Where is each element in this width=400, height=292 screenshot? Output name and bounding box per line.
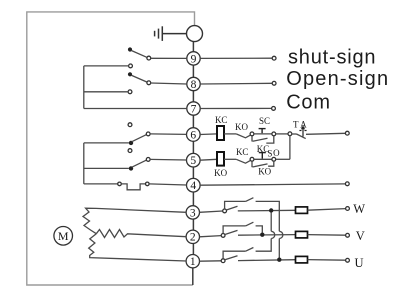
row4 end circle: [345, 182, 349, 186]
svg-text:KO: KO: [235, 122, 248, 132]
phase W lower blade: [226, 206, 237, 210]
SO fixed line: [254, 158, 272, 160]
phase W upper branch: [225, 201, 246, 209]
switch S6 blade: [132, 135, 147, 142]
wire TA to end: [306, 133, 345, 134]
wire upper W to vertical2: [256, 201, 280, 231]
switch S8 blade: [132, 75, 147, 82]
motor winding B: [96, 230, 186, 238]
svg-text:KO: KO: [258, 167, 271, 177]
switch S9 contact: [147, 56, 151, 60]
terminal 7: [187, 102, 200, 115]
phase U upper blade: [246, 248, 254, 252]
phase V upper blade: [246, 222, 254, 226]
svg-text:Com: Com: [286, 91, 331, 113]
svg-text:2: 2: [190, 232, 196, 244]
SO actuator T: [259, 152, 266, 154]
wire button to terminal 4: [149, 184, 186, 185]
wire terminal 7 to Com: [200, 107, 271, 109]
wire terminal 4 long right: [200, 184, 345, 185]
main terminal bus: [192, 42, 195, 285]
fuse FU: [296, 256, 308, 263]
shut-sign end circle: [272, 56, 276, 60]
contact KO blade: [236, 134, 250, 138]
vertical2 lower: [278, 239, 280, 259]
svg-text:8: 8: [191, 79, 197, 91]
terminal 8: [187, 77, 200, 90]
svg-text:KC: KC: [236, 147, 249, 157]
SC contact b: [272, 132, 276, 136]
wire node to TA: [292, 133, 297, 135]
coil KC: [217, 126, 224, 140]
fuse FW: [296, 207, 308, 214]
switch S6 contact: [146, 132, 150, 136]
wire terminal 5 to coil KO: [200, 158, 217, 161]
svg-text:U: U: [355, 256, 364, 270]
phase U moving contact circle: [221, 259, 225, 263]
wire S6 dot to bus2: [84, 142, 129, 144]
svg-text:9: 9: [191, 53, 197, 65]
svg-text:A: A: [300, 120, 307, 130]
phase W line to fuse: [238, 209, 296, 212]
phase U upper branch: [223, 251, 246, 259]
motor winding C: [89, 234, 187, 261]
wire bus2 to button: [84, 183, 118, 185]
SO contact a: [250, 157, 254, 161]
wire SC to node: [276, 133, 288, 135]
svg-text:3: 3: [190, 207, 196, 219]
wire S8 to terminal 8: [151, 83, 187, 84]
svg-text:6: 6: [190, 129, 196, 141]
wire terminal 1 to contactor: [200, 260, 222, 262]
SC actuator T: [259, 128, 266, 130]
wire NC9 to com bus: [84, 65, 129, 67]
row6 end circle: [345, 131, 349, 135]
phase W upper blade: [246, 198, 254, 202]
wire coil KO to contact KC: [224, 158, 236, 160]
terminal 1: [186, 255, 199, 268]
switch S9 blade: [132, 51, 147, 58]
svg-text:Open-sign: Open-sign: [286, 68, 389, 90]
wire coil KC to contact KO: [224, 133, 236, 135]
earth terminal (big circle): [187, 26, 203, 42]
terminal 6: [187, 128, 201, 142]
wire S9 to terminal 9: [151, 57, 187, 59]
phase V lower blade: [225, 230, 238, 234]
svg-text:V: V: [356, 229, 365, 243]
V end circle: [346, 233, 350, 237]
svg-text:1: 1: [190, 256, 196, 268]
ground: [155, 26, 187, 41]
svg-text:4: 4: [190, 180, 196, 192]
terminal 2: [186, 230, 199, 243]
node U dot: [277, 258, 281, 262]
S8 NC contact: [128, 90, 132, 94]
phase U lower blade: [225, 256, 238, 260]
vertical1 to U upper line: [256, 239, 272, 252]
U end circle: [346, 258, 350, 262]
switch S5 blade: [132, 160, 147, 167]
terminal 4: [187, 178, 201, 192]
wire fuse FW to W: [308, 209, 346, 211]
wire fuse FV to V: [308, 234, 346, 237]
switch S8 common dot: [128, 72, 132, 76]
wire terminal 9 to shut-sign: [200, 57, 272, 59]
svg-text:7: 7: [191, 103, 197, 115]
crossover hop vertical1: [271, 231, 275, 238]
node V dot: [260, 233, 264, 237]
phase U line to fuse: [238, 259, 296, 262]
svg-text:KC: KC: [215, 115, 228, 125]
motor winding A: [83, 208, 186, 234]
Open-sign end circle: [272, 81, 276, 85]
phase V upper branch: [223, 226, 246, 234]
svg-text:O: O: [273, 148, 280, 158]
switch S9 common dot: [128, 47, 132, 51]
wire terminal 2 to contactor: [200, 236, 222, 237]
motor M: [54, 227, 73, 246]
SO moving bridge: [251, 161, 253, 167]
svg-text:shut-sign: shut-sign: [288, 46, 376, 68]
wire terminal 6 to coil KC: [200, 133, 217, 136]
phase V moving contact circle: [221, 234, 225, 238]
bus2 vertical: [83, 143, 85, 184]
svg-text:KO: KO: [214, 168, 227, 178]
svg-text:S: S: [267, 148, 272, 158]
SC moving bridge: [251, 136, 253, 142]
wire fuse FU to U: [308, 259, 346, 262]
phase V line to fuse: [238, 234, 296, 237]
spare contact above S6: [128, 123, 132, 127]
terminal 5: [187, 153, 201, 167]
fuse FV: [296, 231, 308, 238]
svg-text:5: 5: [190, 155, 196, 167]
SC fixed line: [254, 133, 272, 135]
wire S5 dot to bus2: [84, 167, 129, 169]
svg-text:SC: SC: [259, 116, 270, 126]
node junction circle: [288, 132, 292, 136]
wire S6 to terminal 6: [150, 133, 186, 136]
node W dot: [269, 208, 273, 212]
coil KO: [217, 152, 224, 166]
phase W moving contact circle: [223, 209, 227, 213]
button left contact: [118, 182, 122, 186]
Com end circle: [272, 107, 276, 111]
SO contact b: [272, 157, 276, 161]
terminal numbers: [58, 53, 197, 268]
switch S5 common dot: [129, 166, 133, 170]
spare contact below S6: [128, 149, 132, 153]
wire SO to node vertical: [276, 158, 290, 160]
wire S5 to terminal 5: [150, 158, 186, 161]
vertical1 upper: [270, 212, 272, 231]
switch S8 contact: [147, 81, 151, 85]
wire com bus to terminal 7: [84, 108, 187, 110]
S9 NC contact: [129, 64, 133, 68]
W end circle: [346, 207, 350, 211]
wire NC8 to com bus: [84, 91, 128, 93]
wire terminal 8 to Open-sign: [200, 82, 272, 85]
terminal 9: [187, 52, 200, 65]
switch S6 common dot: [129, 141, 133, 145]
button bridge: [121, 184, 145, 190]
button right contact: [146, 182, 150, 186]
crossover hop vertical2: [279, 231, 283, 238]
TA blade: [297, 134, 306, 139]
SC contact a: [250, 132, 254, 136]
com bus vertical: [83, 66, 85, 109]
svg-text:T: T: [293, 120, 299, 130]
contact KC blade: [236, 159, 250, 163]
svg-text:M: M: [58, 229, 69, 243]
wire terminal 3 to contactor: [200, 211, 223, 212]
wire upper V down to dot: [256, 226, 263, 233]
TA actuator arrow: [299, 127, 306, 136]
outer enclosure border: [27, 12, 195, 285]
terminal 3: [186, 206, 199, 219]
node vertical wire: [289, 136, 291, 160]
switch S5 contact: [146, 158, 150, 162]
svg-text:W: W: [353, 202, 365, 216]
